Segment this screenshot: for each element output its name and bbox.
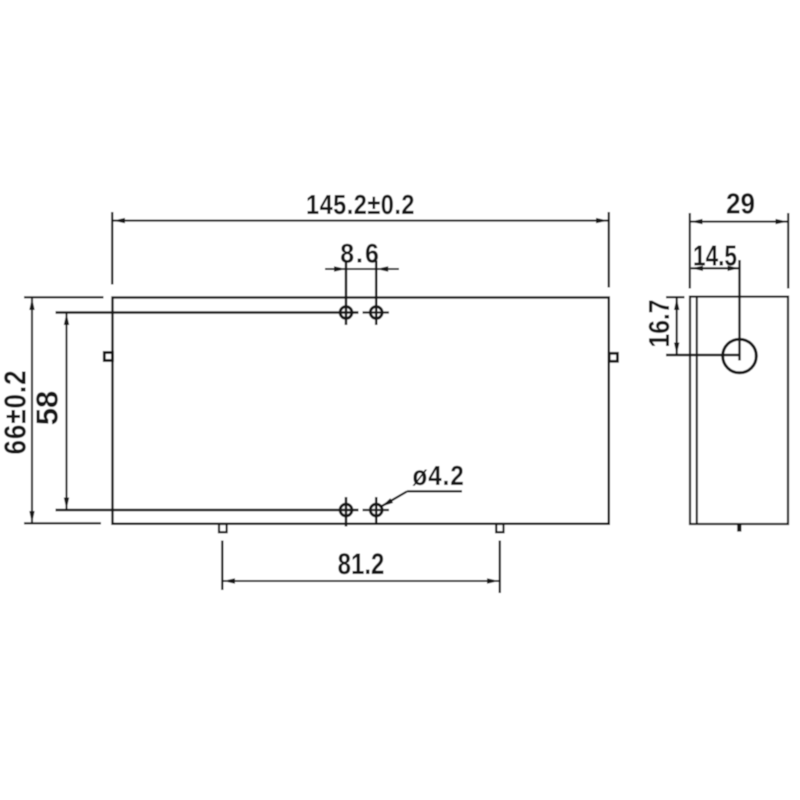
dim 81.2 right extension line — [499, 541, 501, 594]
bottom hole row extension line to left (58 dim) — [56, 509, 359, 511]
dim 66 bottom arrowhead — [29, 511, 34, 523]
dim 66 top arrowhead — [29, 298, 34, 310]
hole bottom-right circle — [370, 504, 382, 516]
dim 58 dimension line — [65, 313, 67, 510]
front view body outline — [113, 298, 609, 524]
side view body outline — [690, 297, 788, 524]
dim 145.2 left arrowhead — [113, 218, 125, 223]
svg-text:81.2: 81.2 — [338, 546, 385, 580]
dim 8.6 left arrowhead (points right) — [334, 266, 346, 271]
side view hole vertical centerline — [738, 260, 740, 361]
hole top-right vertical centerline — [375, 261, 378, 326]
svg-text:58: 58 — [30, 391, 65, 425]
dim 58 bottom arrowhead — [64, 498, 69, 510]
svg-text:145.2±0.2: 145.2±0.2 — [306, 190, 415, 220]
dim 145.2 right arrowhead — [596, 218, 608, 223]
svg-text:ø4.2: ø4.2 — [413, 459, 465, 491]
bottom pin left — [219, 524, 227, 532]
side view bottom pin — [737, 524, 741, 532]
dim 29 right extension line — [787, 213, 789, 289]
svg-text:8.6: 8.6 — [340, 240, 381, 269]
leader line for hole diameter (horizontal) — [407, 490, 462, 492]
dim 81.2 left arrowhead — [223, 578, 235, 583]
dim 8.6 dimension line — [325, 268, 399, 270]
dim 29 dimension line — [691, 221, 788, 223]
dim 8.6 right arrowhead (points left) — [376, 266, 388, 271]
hole top-left vertical centerline — [345, 261, 348, 326]
dim 14.5 right arrowhead — [728, 266, 740, 271]
top hole row extension line to left (58 dim) — [56, 311, 359, 313]
side view hole horizontal centerline / dim 16.7 bottom extension — [666, 354, 740, 356]
dim 29 right arrowhead — [776, 219, 788, 224]
dim 81.2 left extension line — [221, 541, 223, 591]
left side tab — [104, 353, 112, 361]
bottom pin right — [496, 524, 503, 532]
side view hole circle — [723, 339, 757, 373]
side view inner edge line — [696, 298, 698, 524]
dim 16.7 dimension line — [676, 298, 678, 355]
leader arrowhead at hole edge — [381, 498, 393, 506]
dim 14.5 dimension line — [691, 267, 740, 269]
hole bottom-left vertical centerline — [345, 497, 348, 527]
dim 145.2 dimension line — [113, 220, 608, 222]
svg-text:16.7: 16.7 — [643, 300, 675, 348]
dim 29 left arrowhead — [691, 219, 703, 224]
dim 66 dimension line — [31, 298, 33, 523]
hole top-right circle — [370, 307, 382, 319]
dim 14.5 left arrowhead — [691, 266, 703, 271]
svg-text:29: 29 — [726, 187, 755, 220]
dim 81.2 dimension line — [223, 580, 499, 582]
dim 58 top arrowhead — [64, 313, 69, 325]
dim 145.2 left extension line — [111, 212, 113, 285]
hole bottom-right vertical centerline — [375, 497, 378, 525]
dim 16.7 top arrowhead — [674, 298, 679, 310]
leader line for hole diameter (diagonal) — [382, 491, 407, 506]
hole top-left circle — [340, 307, 352, 319]
right side tab — [609, 353, 617, 361]
dim 81.2 right arrowhead — [487, 578, 499, 583]
hole top-right horizontal centerline — [363, 311, 390, 313]
dim 66 bottom extension line — [24, 522, 101, 524]
dim 29 left extension line — [689, 213, 691, 289]
dim 66 top extension line — [24, 296, 104, 298]
dim 16.7 top extension line — [666, 296, 685, 298]
hole bottom-left circle — [340, 504, 352, 516]
dim 16.7 bottom arrowhead — [674, 343, 679, 355]
hole bottom-right horizontal centerline — [363, 509, 390, 511]
svg-text:66±0.2: 66±0.2 — [0, 370, 33, 455]
svg-text:14.5: 14.5 — [693, 239, 737, 272]
dim 145.2 right extension line — [608, 212, 610, 288]
